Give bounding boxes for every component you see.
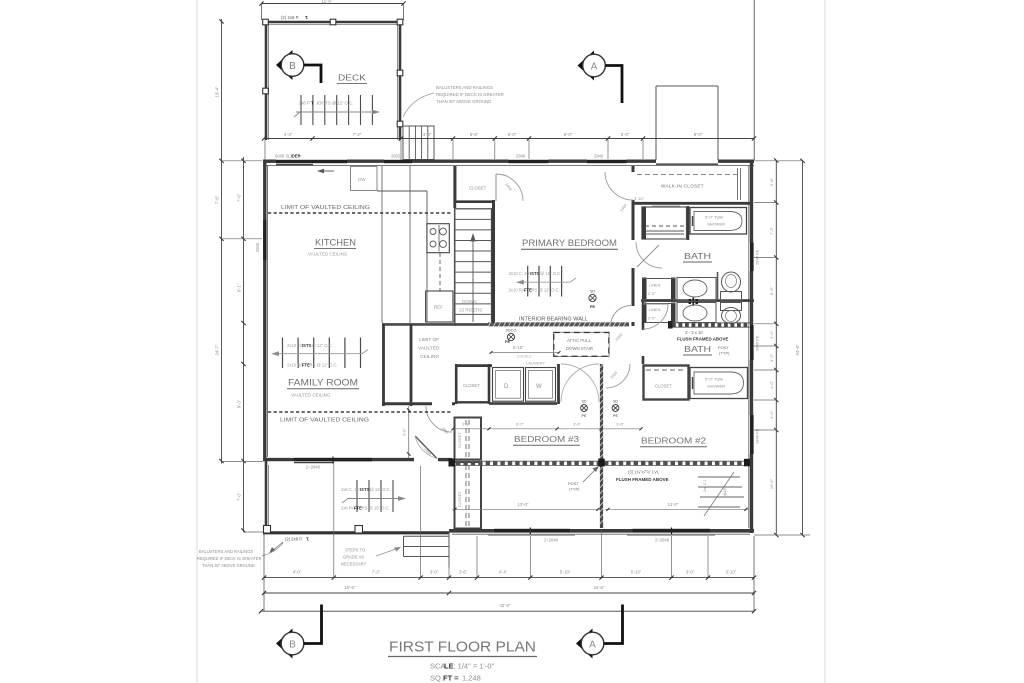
bump-out box: [656, 85, 718, 87]
smoke detector primary: [589, 294, 596, 301]
svg-text:8'-9": 8'-9": [769, 286, 774, 295]
toilet1: [722, 272, 741, 292]
svg-text:ATTIC PULL: ATTIC PULL: [567, 338, 592, 343]
bed2 dim 13: [605, 508, 749, 510]
svg-text:REF: REF: [434, 305, 443, 310]
svg-text:5'-6": 5'-6": [470, 132, 479, 137]
svg-text:BATH: BATH: [684, 252, 711, 261]
smoke det bed2: [612, 405, 619, 412]
svg-text:2 - 2 x 10: 2 - 2 x 10: [685, 330, 703, 335]
range: [427, 224, 449, 253]
svg-text:5'-10": 5'-10": [560, 570, 571, 575]
hall-deck door: [415, 436, 437, 459]
svg-text:CLOSET: CLOSET: [655, 384, 672, 389]
svg-text:VAULTED CEILING: VAULTED CEILING: [291, 393, 331, 398]
svg-text:5'-6": 5'-6": [769, 177, 774, 186]
svg-text:PE: PE: [613, 414, 618, 418]
sheet border left: [196, 0, 198, 683]
svg-text:FLUSH FRAMED ABOVE: FLUSH FRAMED ABOVE: [677, 337, 728, 342]
svg-text:2846 PE: 2846 PE: [755, 428, 760, 444]
laundry top wall: [455, 364, 492, 367]
tub2: [690, 368, 748, 399]
svg-text:SD: SD: [581, 400, 586, 404]
svg-text:2=2846: 2=2846: [544, 538, 559, 543]
svg-text:B: B: [289, 640, 296, 651]
attic pull down stair: [554, 333, 609, 357]
house bottom wall bedrooms: [449, 529, 494, 533]
svg-text:4'-0": 4'-0": [769, 410, 774, 419]
svg-text:13 RISERS: 13 RISERS: [459, 308, 483, 313]
lvl beam: [455, 460, 750, 462]
svg-text:3'-6": 3'-6": [573, 422, 581, 427]
svg-text:FT =: FT =: [443, 674, 459, 683]
primary door arc: [611, 306, 632, 327]
smoke det bed3: [581, 405, 588, 412]
deck post at 400,73: [397, 70, 403, 76]
svg-text:2x8 P: 2x8 P: [299, 101, 310, 106]
svg-text:5'-0" TUB/: 5'-0" TUB/: [705, 377, 724, 382]
svg-text:T.: T.: [306, 537, 309, 542]
svg-text:DW: DW: [358, 177, 366, 182]
svg-text:5'-10": 5'-10": [513, 345, 524, 350]
right top extension line: [753, 0, 755, 160]
svg-text:13'-0": 13'-0": [518, 502, 529, 507]
deck joists: [300, 95, 302, 125]
svg-text:T.: T.: [305, 15, 308, 20]
svg-text:LINEN: LINEN: [649, 307, 661, 312]
stairs: [455, 209, 492, 325]
svg-text:BALUSTERS AND RAILINGS: BALUSTERS AND RAILINGS: [436, 85, 493, 90]
closet2 walls: [644, 366, 689, 400]
dimension row y138: [264, 138, 754, 140]
house left wall: [263, 160, 266, 461]
svg-text:PRIMARY BEDROOM: PRIMARY BEDROOM: [522, 238, 617, 248]
svg-text:7'-2": 7'-2": [372, 570, 381, 575]
bed3 dim 13: [452, 508, 601, 510]
svg-text:16'-5": 16'-5": [769, 478, 774, 489]
svg-text:2x6 C. JO: 2x6 C. JO: [341, 487, 360, 492]
svg-text:7'-6": 7'-6": [215, 195, 220, 204]
vanity2: [677, 303, 716, 323]
svg-text:INTERIOR BEARING WALL: INTERIOR BEARING WALL: [519, 317, 588, 323]
linen2: [642, 303, 647, 324]
bed23 divider wall: [600, 364, 603, 528]
bed3 top wall: [382, 402, 432, 405]
svg-text:REQUIRED IF DECK IS GREATER: REQUIRED IF DECK IS GREATER: [197, 556, 262, 561]
svg-text:FLUSH FRAMED ABOVE: FLUSH FRAMED ABOVE: [616, 477, 669, 482]
svg-text:SHOWER: SHOWER: [707, 222, 725, 227]
bottom dim row1: [264, 577, 754, 579]
tub1 wall: [687, 206, 690, 240]
svg-text:CLOSET: CLOSET: [463, 383, 480, 388]
svg-text:1,248: 1,248: [462, 674, 481, 683]
svg-text:KITCHEN: KITCHEN: [315, 238, 356, 248]
svg-text:PE: PE: [590, 305, 596, 309]
svg-text:SD: SD: [590, 290, 596, 294]
svg-text:10'-6": 10'-6": [345, 585, 356, 590]
svg-text:4'-0": 4'-0": [293, 570, 302, 575]
closetB bed3: [455, 462, 482, 529]
sheet border right: [824, 0, 826, 683]
svg-text:STEPS TO: STEPS TO: [345, 548, 365, 553]
svg-text:LIMIT OF VAULTED CEILING: LIMIT OF VAULTED CEILING: [281, 205, 370, 211]
svg-text:2846: 2846: [516, 154, 526, 159]
svg-text:BALUSTERS AND RAILINGS: BALUSTERS AND RAILINGS: [199, 549, 253, 554]
svg-text:: 1/4" = 1'-0": : 1/4" = 1'-0": [454, 662, 495, 671]
svg-text:VAULTED: VAULTED: [418, 346, 440, 352]
bath column west wall: [632, 166, 635, 172]
svg-text:RS @ 16" O.C.: RS @ 16" O.C.: [362, 506, 390, 511]
svg-text:3'-0": 3'-0": [769, 330, 774, 339]
svg-text:2x8 RA: 2x8 RA: [341, 506, 355, 511]
svg-text:PE: PE: [505, 340, 511, 344]
closet1 bed3 walls: [455, 364, 458, 404]
deck top wall: [265, 21, 401, 24]
right ext lines: [754, 160, 803, 162]
family slider 2-2846: [294, 458, 372, 462]
window pair 2-2846 bed2: [633, 529, 672, 533]
svg-text:2846: 2846: [594, 154, 604, 159]
bath2 door arc: [643, 304, 668, 329]
bath1 south walls: [641, 299, 754, 302]
svg-text:GRADE AS: GRADE AS: [343, 555, 364, 560]
svg-text:5'-10": 5'-10": [631, 570, 642, 575]
svg-text:BEDROOM #3: BEDROOM #3: [514, 434, 579, 444]
svg-text:LE: LE: [444, 662, 454, 671]
svg-text:34'-6": 34'-6": [795, 344, 800, 355]
svg-text:(2) 2x8 P.: (2) 2x8 P.: [281, 15, 299, 20]
hall doors arcs: [561, 364, 599, 402]
toilet wall1: [717, 272, 719, 300]
svg-text:ISTS: ISTS: [360, 487, 370, 492]
bed3 dim row: [453, 428, 641, 430]
deck post at 265.5,22: [263, 19, 269, 25]
lower deck posts: [264, 526, 271, 534]
toilet2: [722, 308, 741, 324]
vanity1: [677, 278, 716, 301]
laundry bottom wall: [489, 402, 557, 405]
svg-text:6068 SLIDER: 6068 SLIDER: [275, 154, 301, 159]
deck post at 400,22: [397, 19, 403, 25]
deck post at 333,22: [330, 19, 336, 25]
deck post at 265.5,91: [263, 88, 269, 94]
walk-in door arc: [605, 172, 633, 200]
svg-text:DECK: DECK: [338, 73, 366, 83]
svg-text:ISTS: ISTS: [302, 343, 312, 348]
svg-text:4'-8": 4'-8": [423, 132, 432, 137]
bed3 door arc: [426, 406, 452, 432]
svg-text:@ 16" O.C.: @ 16" O.C.: [540, 271, 561, 276]
deck right wall: [399, 21, 402, 140]
left ext lines: [222, 238, 263, 240]
svg-text:34'-6": 34'-6": [594, 585, 605, 590]
svg-text:NECESSARY: NECESSARY: [341, 562, 366, 567]
section marker A bottom: [576, 629, 593, 659]
svg-text:@16": @16": [723, 486, 727, 496]
svg-text:9'-3": 9'-3": [237, 399, 242, 408]
window right 3: [750, 415, 754, 454]
svg-text:3'-0": 3'-0": [686, 570, 695, 575]
tub1: [690, 208, 747, 235]
svg-text:3'-10": 3'-10": [634, 196, 645, 201]
svg-text:8'-1": 8'-1": [237, 283, 242, 292]
svg-text:2846: 2846: [255, 242, 260, 252]
bottom dim row3: [261, 610, 754, 612]
stairs right wall: [492, 200, 495, 326]
dryer: [493, 368, 524, 402]
svg-text:3'-6": 3'-6": [616, 422, 624, 427]
svg-text:BEDROOM #2: BEDROOM #2: [641, 436, 706, 446]
closet top walls: [454, 166, 457, 203]
svg-text:2'-0": 2'-0": [648, 317, 656, 321]
deck wall stubs: [264, 140, 266, 160]
house top wall: [263, 159, 276, 162]
family room bottom wall: [263, 458, 294, 461]
svg-text:13'-0": 13'-0": [668, 502, 679, 507]
washer: [526, 368, 556, 402]
svg-text:POST: POST: [568, 481, 579, 486]
window 2832 kitchen: [384, 160, 412, 163]
svg-text:13'-4": 13'-4": [215, 86, 220, 97]
svg-text:3'-0": 3'-0": [430, 570, 439, 575]
svg-text:2=2846: 2=2846: [306, 465, 321, 470]
svg-text:A: A: [591, 62, 598, 73]
svg-text:7'-3": 7'-3": [769, 226, 774, 235]
svg-text:ISTS: ISTS: [530, 271, 540, 276]
left dim line outer: [221, 19, 223, 464]
svg-text:PE: PE: [582, 414, 587, 418]
walkin shelf end: [737, 168, 739, 200]
window right 1: [750, 243, 754, 272]
svg-text:2x6 C.J.: 2x6 C.J.: [703, 479, 707, 492]
svg-text:THAN 30" ABOVE GROUND: THAN 30" ABOVE GROUND: [436, 99, 491, 104]
lower deck joists: [356, 480, 358, 512]
bottom ext lines: [263, 534, 265, 612]
svg-text:3'-2": 3'-2": [769, 353, 774, 362]
family-hall opening dim: [408, 406, 410, 458]
svg-text:5'-0": 5'-0": [621, 132, 630, 137]
family joists: [282, 338, 284, 369]
svg-text:7'-2": 7'-2": [353, 132, 362, 137]
kitchen-stair wall: [453, 166, 456, 208]
svg-text:@ 12" O.C.: @ 12" O.C.: [370, 487, 391, 492]
hall smoke detector: [507, 333, 514, 340]
svg-text:9'-0": 9'-0": [694, 132, 703, 137]
svg-text:DOWN: DOWN: [462, 299, 477, 304]
svg-text:2x10 RA: 2x10 RA: [287, 363, 303, 368]
flush framed beam bath: [672, 322, 750, 324]
slider arrow: [319, 170, 334, 172]
svg-text:2=2846: 2=2846: [655, 538, 670, 543]
svg-text:2x10 C. JO: 2x10 C. JO: [509, 271, 531, 276]
svg-text:3'-10": 3'-10": [726, 570, 737, 575]
right dim line outer: [802, 160, 804, 535]
left dim line inner: [243, 157, 245, 532]
svg-text:2'-0": 2'-0": [648, 292, 656, 296]
svg-text:7'-6": 7'-6": [237, 193, 242, 202]
house right wall: [750, 160, 753, 243]
window 2846 b: [587, 160, 627, 163]
bearing wall west part: [382, 323, 488, 326]
linen cabinet upper: [642, 207, 687, 239]
svg-text:CEILING: CEILING: [420, 354, 439, 360]
svg-text:BATH: BATH: [684, 345, 711, 354]
kitchen counter edge lines: [381, 166, 383, 323]
svg-text:4'-4": 4'-4": [284, 132, 293, 137]
svg-text:FIRST FLOOR PLAN: FIRST FLOOR PLAN: [389, 639, 536, 656]
hall west walls: [382, 324, 385, 406]
dimension line 11'-6 over deck: [262, 3, 404, 5]
svg-text:DOWN STAIR: DOWN STAIR: [566, 346, 593, 351]
steps bottom: [404, 535, 450, 537]
svg-text:2x10 JO: 2x10 JO: [287, 343, 303, 348]
right dim line inner: [775, 160, 777, 535]
svg-text:3'-0": 3'-0": [403, 428, 407, 436]
bath1 door arc: [636, 242, 662, 268]
svg-text:(2) 2x8 P.: (2) 2x8 P.: [285, 537, 303, 542]
svg-text:RS @ 12" O.C.: RS @ 12" O.C.: [310, 363, 338, 368]
svg-text:CLOSET: CLOSET: [457, 491, 462, 507]
interior bearing wall: [488, 322, 629, 326]
svg-text:@ 12" O.C.: @ 12" O.C.: [312, 343, 333, 348]
section marker A top: [578, 51, 595, 81]
svg-text:FAMILY ROOM: FAMILY ROOM: [288, 378, 358, 388]
svg-text:3'-6": 3'-6": [459, 570, 468, 575]
svg-text:3'-1": 3'-1": [462, 422, 470, 427]
svg-text:JOISTS @ 12" O.C.: JOISTS @ 12" O.C.: [316, 101, 353, 106]
deck side steps: [403, 126, 434, 160]
svg-text:42'-0": 42'-0": [500, 603, 511, 608]
svg-text:(TYP): (TYP): [719, 351, 730, 356]
svg-text:B: B: [289, 61, 296, 72]
bed2 door arc: [606, 364, 630, 388]
svg-text:CLOSET: CLOSET: [469, 186, 487, 191]
svg-text:LIMIT OF: LIMIT OF: [419, 337, 439, 343]
deck left wall: [265, 21, 268, 140]
svg-text:5'-0" TUB/: 5'-0" TUB/: [705, 215, 724, 220]
svg-text:(TYP): (TYP): [569, 487, 580, 492]
family dashed vaulted limit: [268, 411, 452, 413]
lower deck left wall: [265, 461, 268, 528]
svg-text:(3) 1¾"x7⅞" LVL: (3) 1¾"x7⅞" LVL: [628, 470, 660, 475]
svg-text:VAULTED CEILING: VAULTED CEILING: [308, 252, 348, 257]
linen1: [642, 278, 647, 301]
hall east wall: [557, 364, 560, 404]
svg-text:7'-0": 7'-0": [237, 492, 242, 501]
walkin south wall: [633, 202, 751, 205]
primary joist symbol: [527, 266, 529, 297]
svg-text:REQUIRED IF DECK IS GREATER: REQUIRED IF DECK IS GREATER: [436, 92, 504, 97]
svg-text:T: T: [311, 101, 314, 106]
svg-text:9'-0": 9'-0": [564, 132, 573, 137]
deck post at 400,124: [397, 121, 403, 127]
counter dashed: [439, 253, 441, 291]
svg-text:DOUBLE: DOUBLE: [517, 355, 532, 359]
kitchen dashed vaulted limit: [268, 212, 452, 214]
svg-text:W: W: [536, 384, 542, 390]
lower deck rail: [263, 531, 449, 534]
closetA bed3: [455, 418, 482, 460]
svg-text:RS @ 12" O.C.: RS @ 12" O.C.: [532, 288, 560, 293]
svg-text:4'-4": 4'-4": [499, 570, 508, 575]
window 2846 left wall: [263, 220, 266, 260]
svg-text:WALK-IN CLOSET: WALK-IN CLOSET: [661, 184, 704, 189]
svg-text:2832: 2832: [391, 154, 401, 159]
window pair 2-2846 bed3: [494, 529, 530, 533]
svg-text:A: A: [589, 640, 596, 651]
svg-text:5'-0": 5'-0": [508, 132, 517, 137]
svg-text:SQ.: SQ.: [430, 674, 443, 683]
bed2 joist dir symbol: [704, 472, 734, 516]
svg-text:4'-0": 4'-0": [769, 380, 774, 389]
svg-text:LINEN: LINEN: [649, 283, 661, 288]
section marker B top: [276, 50, 293, 80]
svg-text:LAUNDRY: LAUNDRY: [526, 361, 545, 366]
kitchen counter front: [377, 190, 427, 192]
svg-text:SDCO: SDCO: [506, 329, 517, 333]
closet door arc: [496, 174, 523, 201]
svg-text:CLOSET: CLOSET: [457, 432, 462, 448]
extension lines to dim row: [452, 140, 454, 160]
svg-text:D: D: [504, 384, 509, 390]
svg-text:SD: SD: [613, 400, 618, 404]
svg-text:11'-6": 11'-6": [321, 0, 333, 4]
dishwasher DW: [351, 167, 378, 191]
svg-text:THAN 30" ABOVE GROUND: THAN 30" ABOVE GROUND: [202, 563, 255, 568]
svg-text:2846 PE: 2846 PE: [755, 335, 760, 351]
walkin closet rod: [637, 174, 737, 176]
window right 2: [750, 325, 754, 360]
svg-text:2x10 RA: 2x10 RA: [509, 288, 525, 293]
svg-text:LIMIT OF VAULTED CEILING: LIMIT OF VAULTED CEILING: [280, 418, 369, 424]
svg-text:POST: POST: [718, 345, 729, 350]
section marker B bottom: [276, 629, 293, 659]
bath2 west wall: [642, 302, 645, 330]
svg-text:SHOWER: SHOWER: [707, 384, 725, 389]
bottom dim row2: [264, 592, 754, 594]
window 2846 a: [509, 160, 549, 163]
svg-text:24'-7": 24'-7": [215, 344, 220, 355]
svg-text:6'-2": 6'-2": [516, 422, 524, 427]
refrigerator: [426, 291, 453, 322]
slider door 6068 top: [276, 160, 347, 163]
